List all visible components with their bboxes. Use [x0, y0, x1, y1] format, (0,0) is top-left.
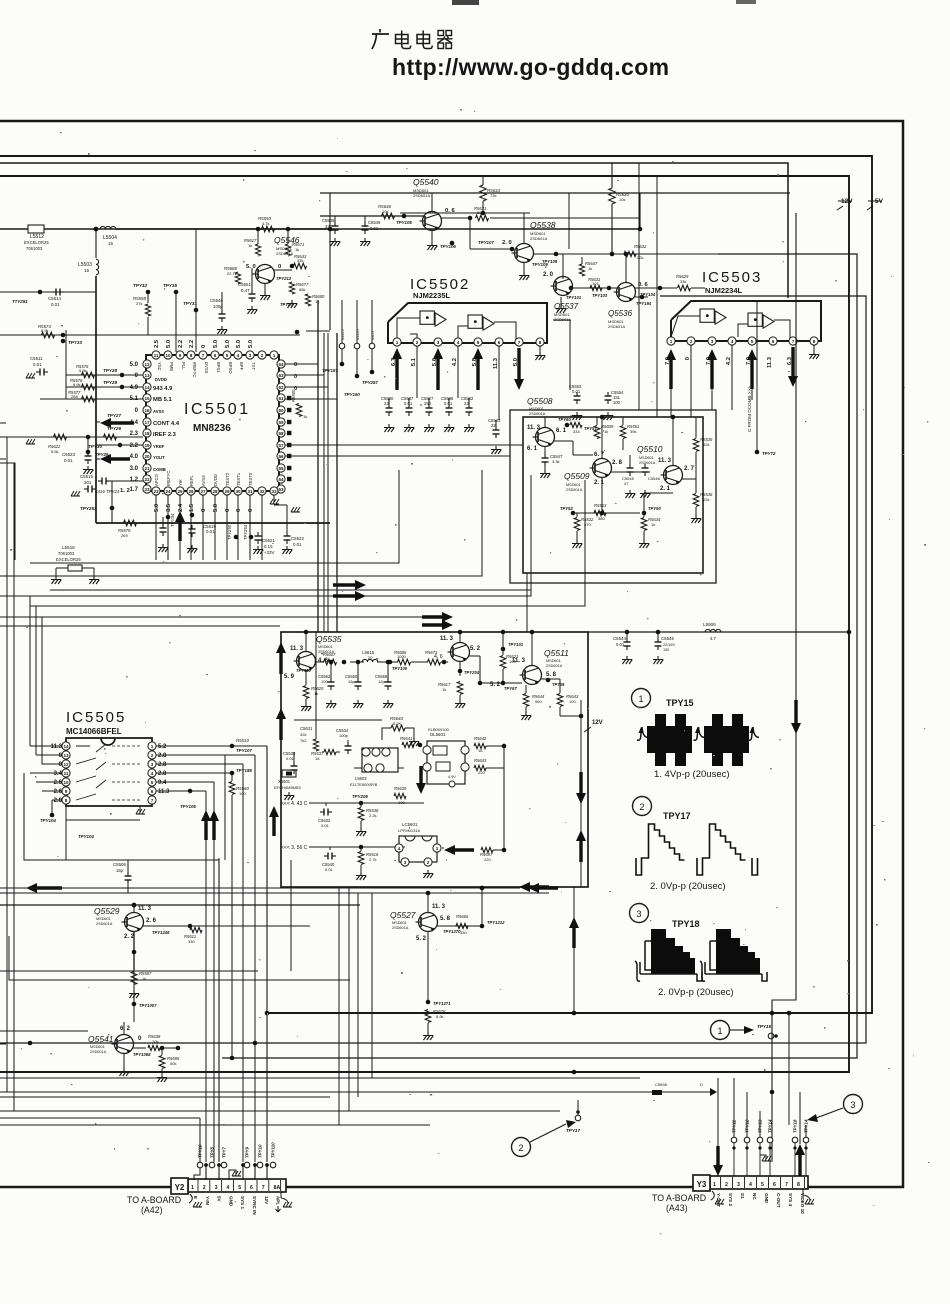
- svg-text:330: 330: [188, 939, 195, 944]
- wire R5574 row: [0, 334, 300, 336]
- IC U5501 top pin values: [154, 339, 254, 348]
- resistor R5537: [311, 749, 336, 761]
- IC U5505 left pins: [62, 742, 70, 804]
- connector Y2 tag: [171, 1178, 188, 1194]
- wire mid links: [294, 720, 404, 768]
- svg-text:1: 1: [670, 339, 673, 344]
- svg-text:301: 301: [84, 480, 92, 485]
- svg-text:TPY106: TPY106: [440, 244, 456, 249]
- svg-text:0.01: 0.01: [404, 401, 413, 406]
- svg-text:10: 10: [165, 353, 171, 358]
- svg-text:60: 60: [278, 408, 284, 413]
- svg-text:S1: S1: [740, 1193, 745, 1199]
- callout 2 arrow: [530, 1120, 576, 1142]
- svg-text:5. 9: 5. 9: [284, 674, 295, 680]
- svg-text:2.6: 2.6: [54, 780, 63, 786]
- resistor R5634b: [639, 513, 661, 548]
- wire vert x337: [336, 333, 338, 632]
- svg-text:DVDD: DVDD: [213, 474, 218, 486]
- svg-text:MSD601: MSD601: [96, 917, 111, 921]
- svg-text:100: 100: [613, 400, 621, 405]
- svg-text:0.47: 0.47: [241, 288, 250, 293]
- svg-text:R5632: R5632: [634, 244, 647, 249]
- svg-text:TPY204: TPY204: [464, 670, 480, 675]
- wire TPY251 row: [0, 290, 96, 295]
- svg-text:TPY1212: TPY1212: [487, 920, 505, 925]
- svg-text:C5598: C5598: [655, 1082, 668, 1087]
- box around Q5541: [0, 1031, 88, 1078]
- svg-text:10k: 10k: [619, 197, 625, 202]
- resistor R5671 top: [285, 242, 304, 256]
- svg-text:TPY107: TPY107: [236, 748, 252, 753]
- transistor Q5511: [520, 648, 570, 685]
- svg-text:2.4: 2.4: [178, 503, 184, 512]
- cluster box inner: [523, 417, 703, 573]
- svg-text:TPY257: TPY257: [362, 380, 378, 385]
- test point TPY32: [133, 283, 150, 294]
- svg-text:220: 220: [484, 857, 491, 862]
- svg-text:Q5529: Q5529: [94, 906, 120, 916]
- waveform TPY17 end dip: [752, 858, 758, 875]
- op-amp U5503b: [738, 313, 790, 338]
- svg-text:100: 100: [398, 800, 405, 805]
- wire bus y893: [0, 892, 549, 894]
- wire U5501 right pin wires: [285, 364, 337, 399]
- svg-text:TPY110: TPY110: [296, 668, 311, 673]
- wire Q5527 base down: [427, 932, 429, 1002]
- wire Q5538 collector: [523, 213, 525, 243]
- svg-text:YOUT: YOUT: [153, 455, 165, 460]
- svg-text:5.0: 5.0: [236, 340, 242, 348]
- resistor R5631b: [588, 277, 602, 291]
- IC U5501 top pin names: [157, 362, 256, 377]
- wire vert x639: [638, 163, 640, 410]
- svg-text:14: 14: [63, 744, 69, 749]
- svg-text:47: 47: [624, 481, 629, 486]
- svg-text:5. 2: 5. 2: [416, 936, 427, 942]
- node TPY253: [80, 481, 114, 523]
- svg-text:53: 53: [278, 487, 284, 492]
- svg-text:2SD601A: 2SD601A: [530, 236, 547, 241]
- svg-text:4.9: 4.9: [130, 385, 139, 391]
- svg-text:30: 30: [235, 489, 241, 494]
- svg-text:TO A-BOARD: TO A-BOARD: [127, 1195, 181, 1205]
- svg-text:22k: 22k: [637, 255, 643, 260]
- svg-text:TPY25: TPY25: [95, 452, 109, 457]
- svg-text:R5560: R5560: [291, 389, 296, 402]
- wire bus y860: [66, 820, 219, 860]
- svg-text:1k: 1k: [588, 266, 592, 271]
- svg-text:TPY185: TPY185: [236, 768, 252, 773]
- svg-text:Q5546: Q5546: [274, 235, 300, 245]
- svg-text:82k: 82k: [703, 442, 709, 447]
- arrow down U5502 pin7: [514, 348, 524, 390]
- svg-text:0.01: 0.01: [293, 542, 302, 547]
- svg-text:CONT 4.4: CONT 4.4: [153, 421, 180, 427]
- svg-text:0: 0: [248, 509, 254, 512]
- capacitor C5519 below U5501: [187, 513, 216, 553]
- label TPY15: [666, 698, 694, 708]
- wire Q5541 base: [123, 1022, 125, 1034]
- svg-text:TPY100: TPY100: [392, 666, 408, 671]
- arrow up box edge 2: [276, 708, 286, 740]
- wire comb to Q5508 box: [285, 445, 523, 456]
- svg-text:1k: 1k: [651, 522, 655, 527]
- svg-text:R5643: R5643: [474, 758, 487, 763]
- small label 4.9V: [448, 775, 456, 787]
- svg-text:23: 23: [144, 487, 150, 492]
- resistor R5607: [323, 652, 346, 665]
- svg-text:Q5537: Q5537: [554, 302, 579, 311]
- svg-text:R5639: R5639: [394, 786, 407, 791]
- resistor R5575: [76, 364, 95, 378]
- svg-text:5.0: 5.0: [166, 340, 172, 348]
- wire dark left vert x96: [95, 330, 97, 523]
- test point TPY1246: [152, 930, 170, 935]
- page header url: [392, 54, 670, 80]
- bus y1125: [0, 1124, 430, 1126]
- wire Q5527 collector: [426, 891, 431, 912]
- waveform TPY15 blob B: [704, 714, 749, 766]
- resistor R5587: [129, 971, 152, 998]
- svg-text:380: 380: [598, 516, 605, 521]
- test point TPY30: [88, 443, 122, 449]
- svg-text:<<< 3. 56 C: <<< 3. 56 C: [281, 845, 308, 851]
- svg-text:10: 10: [63, 780, 69, 785]
- svg-text:11. 3: 11. 3: [432, 904, 446, 910]
- bus y1111: [0, 1092, 560, 1111]
- svg-text:TPY7: TPY7: [222, 1146, 227, 1158]
- svg-text:TPY52: TPY52: [560, 506, 573, 511]
- wire Q5540 rail: [320, 215, 424, 217]
- svg-text:25: 25: [177, 489, 183, 494]
- svg-text:64: 64: [278, 362, 284, 367]
- label 1.2 1.7: [120, 488, 130, 494]
- svg-text:19: 19: [144, 443, 150, 448]
- svg-text:0.01: 0.01: [33, 362, 42, 367]
- svg-text:EXCELOR25: EXCELOR25: [56, 557, 81, 562]
- svg-text:TPY1271: TPY1271: [433, 1001, 451, 1006]
- wire Y3 feed verticals: [734, 1013, 806, 1137]
- svg-text:0: 0: [138, 1036, 142, 1042]
- callout 3 arrow: [807, 1108, 843, 1122]
- svg-text:R5641: R5641: [400, 736, 412, 741]
- ground U5502 pin8: [535, 346, 545, 360]
- svg-text:5. 2: 5. 2: [470, 646, 481, 652]
- label 0.6 Q5536: [638, 282, 656, 297]
- svg-text:3: 3: [151, 762, 154, 767]
- wire Q5529 emitter row: [143, 924, 310, 929]
- svg-text:2. 1: 2. 1: [660, 486, 671, 492]
- resistor R5678: [423, 1009, 446, 1040]
- svg-text:1k: 1k: [248, 243, 252, 248]
- label 5.2 Q5511: [490, 682, 517, 691]
- waveform TPY18 blob B: [700, 929, 767, 981]
- arrow right bus single: [422, 612, 453, 622]
- test point TPY106 label: [440, 241, 456, 249]
- wire tpy52 row: [573, 484, 673, 513]
- capacitor C5548: [322, 216, 340, 246]
- svg-text:269: 269: [121, 533, 128, 538]
- svg-text:24: 24: [165, 489, 171, 494]
- svg-text:NC: NC: [752, 1193, 757, 1200]
- svg-text:33: 33: [271, 489, 277, 494]
- arrow up x274: [269, 806, 279, 836]
- connector Y3 gnd right: [803, 1189, 814, 1204]
- IC U5502 pin voltage labels: [391, 357, 519, 369]
- svg-text:8: 8: [797, 1182, 800, 1188]
- ground Q5538: [519, 263, 529, 280]
- capacitor C5544: [613, 630, 632, 664]
- svg-text:33k: 33k: [297, 258, 303, 263]
- svg-text:E1LTE8000P/B: E1LTE8000P/B: [350, 782, 378, 787]
- svg-text:1k: 1k: [303, 414, 307, 419]
- arrow up U5503 pin5: [747, 349, 757, 389]
- svg-text:BPS1: BPS1: [216, 362, 221, 373]
- resistor R5535 right: [693, 417, 713, 452]
- svg-text:C5514: C5514: [48, 296, 61, 301]
- svg-text:2.8: 2.8: [158, 753, 167, 759]
- resistor R5620: [301, 671, 324, 711]
- svg-text:TPY10: TPY10: [258, 1144, 263, 1158]
- svg-text:2: 2: [639, 802, 644, 812]
- svg-text:C5546: C5546: [648, 476, 661, 481]
- svg-text:2.2: 2.2: [130, 443, 139, 449]
- wire U5501 bottom pin stubs: [156, 495, 262, 560]
- svg-text:7: 7: [262, 1185, 265, 1191]
- resistor R5644: [521, 685, 545, 720]
- resistor R5677: [280, 282, 309, 308]
- wire x796 top: [690, 212, 796, 214]
- svg-text:4.9V: 4.9V: [448, 775, 456, 779]
- resistor R5553: [594, 503, 607, 521]
- wire bus y971: [0, 970, 258, 972]
- svg-text:5: 5: [751, 339, 754, 344]
- svg-text:APCO: APCO: [154, 473, 159, 486]
- svg-text:2SD601A: 2SD601A: [90, 1050, 107, 1054]
- arrow right bus single b: [422, 620, 453, 630]
- svg-text:C FROM DCOMB >>>: C FROM DCOMB >>>: [747, 386, 752, 432]
- test point TPY101b: [501, 642, 524, 651]
- svg-text:MSD601: MSD601: [566, 483, 581, 487]
- scan speck top: [452, 0, 479, 5]
- svg-text:0.01: 0.01: [286, 756, 295, 761]
- svg-text:TEST1: TEST1: [236, 472, 241, 486]
- label TPY18: [672, 919, 700, 929]
- svg-text:11. 3: 11. 3: [512, 658, 526, 664]
- svg-text:4: 4: [151, 771, 154, 776]
- op-amp U5503a: [671, 309, 726, 337]
- connector Y2 board label: [127, 1195, 181, 1215]
- svg-text:20k: 20k: [152, 1039, 158, 1044]
- label vals Q5508: [527, 425, 567, 452]
- svg-text:6: 6: [151, 789, 154, 794]
- callout circle 1 bottom: [711, 1021, 730, 1040]
- label vals Q5511: [512, 658, 557, 678]
- resistor R5611: [184, 927, 202, 944]
- wire Q5508 to Q5509: [554, 441, 597, 459]
- wire vert x243: [242, 764, 244, 1162]
- svg-text:C5549: C5549: [368, 220, 381, 225]
- svg-text:Y3: Y3: [697, 1180, 707, 1189]
- wire U5505 right feeds: [156, 746, 267, 791]
- svg-text:4: 4: [731, 339, 734, 344]
- svg-text:101: 101: [592, 281, 599, 286]
- wire left pins bus: [40, 375, 143, 459]
- test point TPY28: [103, 368, 124, 377]
- wire vert x225: [224, 755, 226, 860]
- svg-text:2.6: 2.6: [54, 789, 63, 795]
- callout circle 1: [632, 689, 651, 708]
- svg-text:8: 8: [539, 340, 542, 345]
- op-amp U5502b: [458, 315, 516, 340]
- svg-text:TPY1068: TPY1068: [133, 1052, 151, 1057]
- svg-text:14: 14: [144, 385, 150, 390]
- resistor R5688: [224, 266, 241, 284]
- test point TPY110: [296, 668, 311, 673]
- wire vert x349 low: [348, 887, 350, 1111]
- capacitor C5540 row: [322, 847, 336, 872]
- IC U5505 body: [66, 738, 152, 806]
- IC U5501 left pin names: [153, 377, 180, 472]
- svg-text:4.2: 4.2: [726, 357, 732, 365]
- svg-text:EFCH4M5MB3: EFCH4M5MB3: [274, 785, 302, 790]
- bus y590: [50, 589, 531, 591]
- test point group 0JI27: [369, 329, 375, 374]
- svg-text:Q5541: Q5541: [88, 1034, 114, 1044]
- svg-text:DVDD: DVDD: [155, 377, 167, 382]
- svg-text:(A42): (A42): [141, 1205, 163, 1215]
- resistor R5558: [133, 292, 151, 335]
- arrow up U5502 pin5: [473, 348, 483, 390]
- wire U5503 pin3 down: [711, 389, 713, 410]
- arrow down mid box: [416, 766, 426, 794]
- test point TPY105: [396, 214, 412, 225]
- wire vert x332 up: [331, 1092, 333, 1097]
- svg-text:1. 2: 1. 2: [120, 488, 130, 494]
- svg-text:TPY17: TPY17: [663, 811, 691, 821]
- svg-text:2: 2: [261, 353, 264, 358]
- bus line 5V rail: [0, 156, 872, 1013]
- label 3.56C: [281, 845, 308, 851]
- wire vert x318: [317, 300, 319, 632]
- svg-text:AVSS: AVSS: [153, 409, 164, 414]
- svg-text:TPY15: TPY15: [757, 1024, 771, 1029]
- bus y596: [0, 475, 531, 596]
- junction dots buses: [28, 227, 852, 1095]
- svg-text:5. 0: 5. 0: [246, 264, 256, 270]
- wire Q5509 Q5510 link: [611, 462, 696, 479]
- svg-text:330: 330: [460, 930, 467, 935]
- svg-text:5: 5: [761, 1182, 764, 1188]
- wire vert x200: [199, 1118, 201, 1162]
- subcircuit box outline: [281, 632, 588, 887]
- svg-text:57: 57: [278, 443, 284, 448]
- svg-text:TPY194: TPY194: [636, 301, 652, 306]
- capacitor C5532 row: [318, 803, 332, 828]
- svg-text:68k: 68k: [299, 287, 305, 292]
- resistor R5640: [382, 716, 419, 746]
- svg-text:12: 12: [63, 762, 69, 767]
- svg-text:C-OUT: C-OUT: [776, 1193, 781, 1208]
- svg-text:2.2: 2.2: [189, 340, 195, 348]
- transistor Q5541: [88, 1034, 134, 1054]
- svg-text:Y-IN: Y-IN: [205, 1196, 210, 1206]
- svg-text:4: 4: [457, 340, 460, 345]
- wire vert x255: [254, 755, 256, 1162]
- svg-text:470: 470: [584, 522, 591, 527]
- arrow up box edge 1: [276, 642, 286, 674]
- wire to Q5511 base: [469, 656, 522, 685]
- IC U5505 left values: [51, 744, 63, 804]
- svg-text:22/16V: 22/16V: [663, 643, 676, 647]
- svg-text:TPY50: TPY50: [648, 506, 661, 511]
- wire vert x358 low: [357, 893, 359, 1097]
- arrow up below U5501: [175, 511, 185, 541]
- component diode bus: [652, 1082, 717, 1096]
- svg-text:TPY9: TPY9: [245, 1146, 250, 1158]
- resistor R5642: [474, 736, 506, 753]
- label vals Q5510: [658, 458, 695, 492]
- bus y626: [0, 625, 280, 627]
- svg-text:TPY105: TPY105: [180, 804, 196, 809]
- svg-text:15p: 15p: [116, 868, 124, 873]
- capacitor C5511: [26, 356, 48, 378]
- resistor R5574: [38, 324, 54, 338]
- svg-text:YIK: YIK: [178, 479, 183, 486]
- test point TPY250: [227, 524, 238, 540]
- svg-text:2SD601A: 2SD601A: [529, 412, 546, 416]
- wire Q5529 base down: [132, 932, 137, 970]
- svg-text:2: 2: [151, 753, 154, 758]
- svg-text:72k: 72k: [490, 193, 496, 198]
- svg-text:2. 2: 2. 2: [124, 934, 135, 940]
- arrow down x581: [576, 772, 586, 804]
- svg-text:0.01: 0.01: [572, 389, 581, 394]
- svg-text:8A: 8A: [274, 1185, 281, 1191]
- svg-text:59: 59: [278, 420, 284, 425]
- wire Q5535 row: [315, 661, 448, 663]
- resistor R5643c: [474, 758, 504, 775]
- svg-text:7: 7: [785, 1182, 788, 1188]
- svg-text:7: 7: [151, 798, 154, 803]
- transistor Q5529: [94, 906, 144, 932]
- arrow down U5503 pin7: [788, 347, 798, 387]
- IC U5501 body: [146, 355, 279, 491]
- test point TPY27: [107, 413, 121, 418]
- callout circle 2: [633, 797, 652, 816]
- svg-text:C5506: C5506: [113, 862, 126, 867]
- connector Y2 gnd squiggle: [189, 1194, 202, 1207]
- arrow up U5502 pin1: [392, 348, 402, 390]
- svg-text:63: 63: [278, 373, 284, 378]
- connector Y3 board label: [652, 1193, 706, 1213]
- svg-text:2. 0: 2. 0: [543, 272, 554, 278]
- svg-text:5.2: 5.2: [158, 744, 167, 750]
- svg-text:3.3k: 3.3k: [552, 459, 560, 464]
- transistor Q5510: [637, 444, 683, 485]
- svg-text:100: 100: [569, 699, 576, 704]
- svg-text:GND: GND: [228, 1196, 233, 1207]
- svg-text:7061003: 7061003: [58, 551, 75, 556]
- svg-text:R5553: R5553: [594, 503, 607, 508]
- svg-text:11.3: 11.3: [493, 357, 499, 369]
- svg-text:31: 31: [247, 489, 253, 494]
- svg-text:IREFYC: IREFYC: [166, 471, 171, 486]
- resistor R5589: [570, 414, 597, 434]
- svg-text:150: 150: [663, 648, 669, 652]
- svg-text:0.01: 0.01: [444, 401, 453, 406]
